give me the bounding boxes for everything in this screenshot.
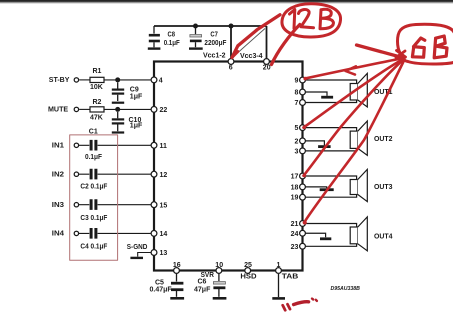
pin 13	[151, 250, 157, 256]
wire ST-BY row	[79, 79, 90, 81]
pin circles	[74, 59, 305, 274]
pin 11	[151, 142, 157, 148]
pin 7	[300, 100, 306, 106]
svg-text:2200μF: 2200μF	[204, 40, 227, 47]
pin 20	[264, 59, 270, 65]
svg-text:D95AU338B: D95AU338B	[331, 286, 361, 292]
svg-text:10K: 10K	[90, 84, 103, 91]
pin 16	[174, 268, 180, 274]
svg-text:16: 16	[173, 262, 181, 269]
red fan line to pin 9	[306, 58, 404, 78]
ground C6	[213, 297, 227, 300]
pin 22	[151, 107, 157, 113]
red circle 12V	[282, 4, 341, 37]
pin 21	[300, 221, 306, 227]
red arrowhead on line to pin 9	[346, 66, 357, 74]
wire rail to pin 20	[266, 26, 268, 62]
svg-text:18: 18	[291, 184, 299, 191]
pin 1	[276, 268, 282, 274]
speaker OUT3	[350, 180, 358, 195]
svg-text:C5: C5	[155, 279, 164, 286]
pin 23	[300, 243, 306, 249]
red scribble dash	[294, 302, 309, 305]
wire MUTE row	[79, 108, 90, 110]
red tip at pin 9	[303, 77, 307, 81]
pin 25	[245, 268, 251, 274]
pin 5	[300, 125, 306, 131]
pin 14	[151, 231, 157, 237]
svg-text:13: 13	[160, 250, 168, 257]
svg-text:IN3: IN3	[52, 202, 64, 209]
red fan line to pin 21	[304, 60, 405, 223]
svg-text:14: 14	[160, 231, 168, 238]
svg-text:C3 0.1μF: C3 0.1μF	[80, 215, 108, 222]
pin 17	[300, 173, 306, 179]
pin 18	[300, 184, 306, 190]
node MUTE junction	[115, 107, 120, 112]
svg-text:11: 11	[160, 143, 168, 150]
pin 2	[300, 138, 306, 144]
ground TAB	[272, 297, 285, 300]
svg-text:6: 6	[229, 65, 233, 72]
svg-text:R1: R1	[93, 68, 102, 75]
svg-text:C2 0.1μF: C2 0.1μF	[80, 184, 108, 191]
red tip at pin 5	[303, 126, 307, 130]
svg-text:R2: R2	[93, 99, 102, 106]
ground C7	[189, 47, 203, 49]
node rail-pin6 junction	[229, 24, 234, 29]
wire pin24 stub	[305, 233, 325, 237]
pin 19	[300, 194, 306, 200]
ground S-GND	[130, 257, 143, 259]
pin 9	[300, 77, 306, 83]
red text 6В	[412, 38, 424, 57]
red arrow near pin 20	[272, 25, 300, 65]
op-amp IC U1 body (TDA7386)	[154, 62, 303, 271]
red tip at pin 21	[303, 221, 307, 225]
svg-text:24: 24	[291, 231, 299, 238]
pin 10	[216, 268, 222, 274]
svg-text:ST-BY: ST-BY	[49, 77, 70, 84]
wire pin2 stub	[305, 141, 324, 145]
wire pin21 to speaker OUT4	[306, 224, 357, 247]
svg-text:20: 20	[263, 65, 271, 72]
svg-text:9: 9	[295, 78, 299, 85]
terminal MUTE	[74, 107, 78, 111]
svg-text:0.1μF: 0.1μF	[164, 40, 181, 47]
svg-text:19: 19	[291, 195, 299, 202]
wire Vcc rail	[154, 25, 267, 27]
svg-text:2: 2	[295, 138, 299, 145]
svg-text:7: 7	[295, 100, 299, 107]
svg-text:C4 0.1μF: C4 0.1μF	[80, 244, 108, 251]
wire pin9 to speaker OUT1	[306, 80, 357, 103]
red fan line to pin 17	[304, 59, 405, 176]
svg-text:1μF: 1μF	[130, 94, 143, 101]
ground pin18	[320, 188, 334, 191]
svg-text:1μF: 1μF	[130, 123, 143, 130]
pin 4	[151, 77, 157, 83]
capacitor C5	[176, 271, 178, 282]
svg-text:0.1μF: 0.1μF	[85, 154, 103, 161]
svg-text:1: 1	[277, 262, 281, 269]
pin 15	[151, 202, 157, 208]
svg-text:OUT4: OUT4	[374, 233, 393, 240]
pin 8	[300, 89, 306, 95]
ground pin8	[321, 96, 333, 99]
svg-text:47K: 47K	[90, 115, 103, 122]
svg-text:C7: C7	[210, 31, 218, 38]
svg-text:C8: C8	[168, 31, 176, 38]
ground C8	[148, 47, 161, 49]
svg-text:Vcc1-2: Vcc1-2	[203, 53, 226, 60]
svg-text:IN2: IN2	[52, 171, 64, 178]
red stroke from fan to 12V area	[357, 45, 405, 58]
capacitor C8	[153, 26, 155, 34]
red box around input capacitors	[70, 135, 118, 260]
capacitor C3	[91, 199, 96, 210]
svg-text:23: 23	[291, 244, 299, 251]
wire IN2 row	[79, 173, 151, 175]
svg-text:0.47μF: 0.47μF	[150, 286, 173, 293]
svg-text:S-GND: S-GND	[127, 244, 148, 251]
svg-text:5: 5	[295, 125, 299, 132]
svg-text:TAB: TAB	[282, 274, 299, 281]
red scribble quote marks	[283, 304, 290, 310]
svg-text:HSD: HSD	[240, 273, 256, 280]
red circle 6V	[398, 24, 453, 64]
ground C9	[112, 102, 124, 104]
speaker OUT2	[350, 131, 358, 148]
red tip at pin 17	[303, 174, 307, 178]
terminal IN2	[74, 172, 78, 176]
red scribble dots	[312, 299, 317, 301]
wire IN4 row	[79, 232, 151, 234]
wire TAB pin 1	[278, 274, 280, 297]
svg-text:12: 12	[160, 172, 168, 179]
capacitor C7	[195, 26, 197, 34]
wire IN3 row	[79, 204, 151, 206]
wire pin8 stub	[305, 92, 327, 96]
terminal ST-BY	[74, 78, 78, 82]
svg-text:MUTE: MUTE	[48, 107, 69, 114]
red text 12В	[290, 10, 295, 29]
svg-text:OUT2: OUT2	[374, 136, 393, 143]
svg-text:Vcc3-4: Vcc3-4	[240, 53, 263, 60]
wire rail to pin 6	[230, 26, 232, 62]
svg-text:15: 15	[160, 202, 168, 209]
capacitor C9	[117, 82, 119, 88]
ground pin2	[318, 145, 331, 148]
svg-text:47μF: 47μF	[194, 286, 211, 293]
wire pin18 stub	[305, 187, 326, 188]
svg-text:IN1: IN1	[52, 142, 64, 149]
red arrow 12V to pin 6	[232, 15, 280, 58]
wire pin17 to speaker OUT3	[306, 176, 357, 197]
top scan border strip	[0, 0, 453, 4]
node ST-BY junction	[115, 77, 120, 82]
svg-text:IN4: IN4	[52, 231, 64, 238]
svg-text:OUT3: OUT3	[374, 184, 393, 191]
capacitor C4	[91, 228, 96, 239]
speaker OUT4	[350, 227, 358, 244]
resistor R1	[90, 77, 104, 82]
resistor R2	[90, 107, 104, 112]
wire S-GND from pin 13	[138, 253, 151, 257]
svg-text:4: 4	[159, 78, 163, 85]
ground C5	[170, 297, 184, 300]
svg-text:17: 17	[291, 174, 299, 181]
wire IN1 row	[79, 144, 151, 146]
terminal IN4	[74, 231, 78, 235]
pin 24	[300, 230, 306, 236]
pin 12	[151, 171, 157, 177]
svg-text:21: 21	[291, 221, 299, 228]
red arrowhead at 6V fan	[396, 51, 406, 58]
node rail-C7 junction	[193, 24, 198, 29]
pin 3	[300, 148, 306, 154]
wire thin diagonal artifact near pin 6	[234, 29, 266, 57]
red fan line to pin 5	[304, 59, 405, 128]
capacitor C6	[218, 271, 220, 282]
svg-text:C6: C6	[198, 279, 207, 286]
capacitor C2	[91, 169, 96, 180]
terminal IN3	[74, 203, 78, 207]
svg-text:25: 25	[244, 262, 252, 269]
svg-text:22: 22	[160, 107, 168, 114]
ground C10	[112, 131, 124, 133]
wire pin5 to speaker OUT2	[306, 128, 357, 151]
svg-text:8: 8	[295, 90, 299, 97]
pin 6	[228, 59, 234, 65]
svg-text:3: 3	[295, 148, 299, 155]
terminal IN1	[74, 143, 78, 147]
capacitor C1	[91, 140, 96, 151]
speaker OUT1	[350, 84, 358, 101]
capacitor C10	[117, 112, 119, 118]
ground pin24	[320, 237, 331, 240]
svg-text:10: 10	[215, 262, 223, 269]
